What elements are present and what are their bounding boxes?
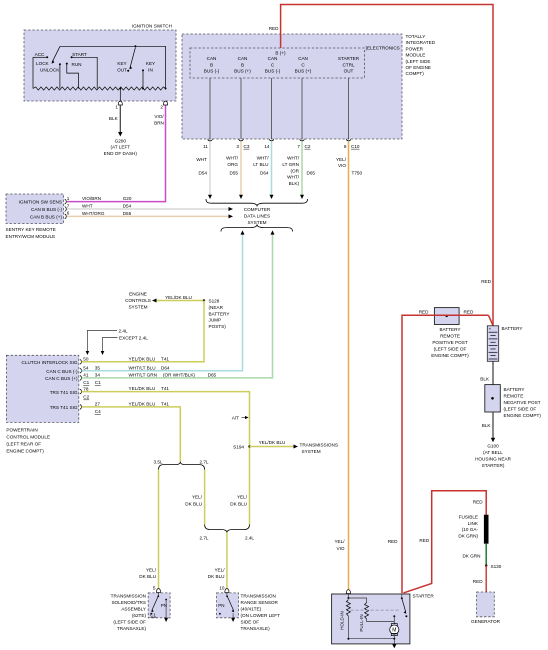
starter motor and solenoid [332,590,435,644]
wire WHT D54 sentry to data lines [67,204,233,211]
svg-text:POWER: POWER [406,46,424,51]
svg-text:CAN B BUS (-): CAN B BUS (-) [31,207,62,212]
svg-text:SYSTEM: SYSTEM [302,449,321,454]
wire YEL/DK BLU 3.5L branch to solenoid [139,470,158,590]
svg-text:TRANSMISSION: TRANSMISSION [111,593,146,598]
svg-text:(LEFT SIDE OF: (LEFT SIDE OF [113,619,146,624]
TIPM pin 8 C10 [344,144,360,149]
svg-text:TRS T41 SIG: TRS T41 SIG [50,390,78,395]
svg-text:LT GRN: LT GRN [282,162,299,167]
svg-text:BUS (-): BUS (-) [204,69,220,74]
svg-text:VIO: VIO [338,163,346,168]
TIPM pin 11 [203,144,208,149]
svg-text:50: 50 [83,357,89,362]
TIPM pin 14 [264,144,270,149]
variant tag EXCEPT 2.4L [101,336,149,356]
svg-text:B: B [241,62,244,67]
sentry key remote entry / WCM module [6,194,67,239]
svg-text:S128: S128 [209,299,220,304]
svg-text:BUS (-): BUS (-) [265,69,281,74]
svg-text:REMOTE: REMOTE [440,333,460,338]
svg-text:RED: RED [464,310,474,315]
battery [487,326,522,362]
svg-text:TOTALLY: TOTALLY [406,34,426,39]
svg-text:OUT: OUT [344,69,354,74]
svg-text:B (+): B (+) [275,50,286,55]
svg-text:BLK: BLK [480,376,490,381]
wire WHT/LT BLU D64 CAN C(-) to data lines [82,230,245,370]
svg-text:RUN: RUN [71,62,81,67]
svg-text:T41: T41 [161,356,169,361]
variant tag A/T [232,415,249,420]
svg-text:IN: IN [148,68,153,73]
sentry module pin 7 [67,203,70,208]
ground G100 [475,438,511,468]
svg-text:RED: RED [481,279,491,284]
wire RED B(+) feed from battery to TIPM [269,5,493,326]
svg-text:REMOTE: REMOTE [504,393,524,398]
TIPM electronics block [190,46,400,79]
svg-text:2: 2 [160,104,163,109]
transmissions system node [300,442,338,454]
svg-text:G20: G20 [123,196,132,201]
ground at starter [392,644,396,648]
svg-text:SYSTEM: SYSTEM [128,305,147,310]
wire BLK battery negative to negative post [480,361,493,384]
wire RED positive post to starter battery terminal [388,315,435,593]
svg-text:WHT/: WHT/ [226,156,239,161]
ignition switch S1 [24,24,176,102]
svg-text:C1: C1 [150,612,156,617]
svg-text:(OR WHT/BLK): (OR WHT/BLK) [163,373,195,378]
svg-text:CLUTCH INTERLOCK SIG: CLUTCH INTERLOCK SIG [22,360,78,365]
svg-text:(OR: (OR [290,168,299,173]
svg-text:NEGATIVE POST: NEGATIVE POST [504,400,541,405]
svg-text:D65: D65 [208,373,217,378]
svg-text:VIO/BRN: VIO/BRN [82,196,101,201]
svg-text:S130: S130 [491,564,502,569]
wire YEL/DK BLU merge to range sensor [208,532,227,589]
svg-text:YEL/: YEL/ [192,495,203,500]
svg-text:(10 GA-: (10 GA- [462,527,479,532]
svg-text:1: 1 [115,104,118,109]
svg-text:ENGINE COMPT): ENGINE COMPT) [504,413,542,418]
ignition switch pin 2 [160,101,167,109]
wire WHT D54 from TIPM pin 11 [196,142,212,199]
svg-text:ENGINE COMPT): ENGINE COMPT) [431,353,469,358]
svg-text:HOLD-IN: HOLD-IN [339,611,344,630]
svg-text:2.4L: 2.4L [119,328,128,333]
totally integrated power module (TIPM) [182,34,436,139]
svg-text:CONTROLS: CONTROLS [125,298,151,303]
svg-text:CAN C BUS (-): CAN C BUS (-) [46,369,78,374]
engine controls system node [125,292,156,310]
svg-text:ENGINE COMPT): ENGINE COMPT) [6,449,44,454]
svg-text:BUS (+): BUS (+) [295,69,312,74]
wire WHT/LT GRN D65 CAN C(+) to data lines [82,230,275,378]
generator [471,592,501,624]
svg-text:D55: D55 [123,211,132,216]
svg-text:KEY: KEY [117,61,126,66]
svg-text:YEL/DK BLU: YEL/DK BLU [165,295,192,300]
svg-text:RED: RED [419,538,429,543]
svg-text:LINK: LINK [468,521,479,526]
svg-text:STARTER: STARTER [413,593,435,598]
svg-text:7: 7 [297,144,300,149]
svg-text:VIO/: VIO/ [154,114,164,119]
svg-text:ENGINE: ENGINE [129,292,147,297]
wire YEL/DK BLU S194 to transmissions system [250,440,299,449]
svg-text:OUT: OUT [117,68,127,73]
svg-text:78: 78 [83,386,89,391]
wire BLK negative post to G100 [482,412,493,438]
svg-text:YEL/DK BLU: YEL/DK BLU [259,440,286,445]
svg-text:DK GRN): DK GRN) [458,534,478,539]
svg-text:TRANSAXLE): TRANSAXLE) [117,626,147,631]
wire YEL/DK BLU 2.4L branch [230,495,247,507]
svg-text:WHT/LT BLU: WHT/LT BLU [129,365,156,370]
svg-text:MODULE: MODULE [406,53,426,58]
svg-text:START: START [72,52,87,57]
transmission range sensor [217,586,281,631]
splice S194 [233,445,251,450]
svg-text:D64: D64 [161,365,170,370]
svg-text:RED: RED [419,310,429,315]
svg-text:T750: T750 [352,171,363,176]
svg-text:BATTERY: BATTERY [440,327,461,332]
transmission solenoid/TRS assembly [111,586,170,631]
svg-text:BATTERY: BATTERY [504,387,525,392]
battery remote negative post [485,385,542,418]
wire BLK from ignition switch pin 1 to G200 [109,106,120,133]
splice S128 [203,299,230,330]
svg-text:3: 3 [236,144,239,149]
svg-text:(LEFT SIDE OF: (LEFT SIDE OF [434,346,467,351]
svg-text:VIO: VIO [337,546,345,551]
svg-text:C1: C1 [95,380,101,385]
TIPM pin 7 C2 [297,144,310,149]
ground G200 [104,132,138,156]
svg-text:B: B [210,62,213,67]
wire WHT/ORG D55 sentry to data lines [67,211,233,218]
PCM pin 27 [95,402,101,407]
svg-text:TRS T41 SIG: TRS T41 SIG [50,405,78,410]
svg-text:DK BLU: DK BLU [139,574,156,579]
svg-text:(40/41TE): (40/41TE) [241,606,262,611]
svg-text:SOLENOID/TRS: SOLENOID/TRS [111,600,146,605]
svg-text:BLK): BLK) [289,181,300,186]
svg-text:G100: G100 [487,444,499,449]
svg-text:OF ENGINE: OF ENGINE [406,65,432,70]
svg-text:POSTS): POSTS) [209,324,227,329]
svg-text:BATTERY: BATTERY [502,326,523,331]
svg-text:YEL/DK BLU: YEL/DK BLU [129,402,156,407]
svg-text:(ON LOWER LEFT: (ON LOWER LEFT [241,613,281,618]
svg-text:G200: G200 [115,138,127,143]
TIPM pin 3 C3 [236,144,249,149]
svg-text:GENERATOR: GENERATOR [471,619,501,624]
svg-text:(LEFT SIDE OF: (LEFT SIDE OF [504,406,537,411]
svg-text:RED: RED [269,26,279,31]
svg-text:5: 5 [153,586,156,591]
svg-text:1: 1 [67,196,70,201]
svg-text:A/T: A/T [232,415,239,420]
svg-text:ORG: ORG [227,162,238,167]
svg-text:34: 34 [95,373,101,378]
svg-text:RED: RED [473,500,483,505]
svg-text:TRANSMISSIONS: TRANSMISSIONS [300,442,338,447]
svg-text:BUS (+): BUS (+) [234,69,251,74]
svg-text:BLK: BLK [109,116,119,121]
PCM pins 41 / 34 [83,373,100,378]
svg-text:INTEGRATED: INTEGRATED [406,40,436,45]
svg-text:COMPT): COMPT) [406,71,425,76]
svg-text:8: 8 [344,144,347,149]
svg-text:D55: D55 [229,171,238,176]
svg-text:T41: T41 [161,386,169,391]
svg-text:CAN: CAN [298,56,308,61]
svg-text:C2: C2 [305,144,311,149]
svg-text:C10: C10 [351,144,360,149]
svg-text:SIDE OF: SIDE OF [241,619,260,624]
merge brace 2.7L / 2.4L [199,525,254,541]
svg-text:LOCK: LOCK [36,61,50,66]
svg-text:RED: RED [388,539,398,544]
svg-text:TRANSAXLE): TRANSAXLE) [241,626,271,631]
ground at transmission solenoid [164,618,168,622]
svg-text:TRANSMISSION: TRANSMISSION [241,593,276,598]
PCM pin 50 [83,357,89,362]
svg-text:M: M [392,628,396,634]
svg-text:41: 41 [83,373,89,378]
wire YEL/DK BLU T41 clutch interlock (pin 50) to S128 [82,301,205,362]
wire RED battery to positive post to starter [419,310,493,326]
fusible link (10 GA- DK GRN) [458,514,488,543]
PCM connector C2 [83,395,89,400]
svg-text:FUSIBLE: FUSIBLE [459,514,478,519]
svg-text:ENTRY/WCM MODULE: ENTRY/WCM MODULE [6,234,56,239]
svg-text:C2: C2 [83,395,89,400]
sentry module pin 1 [67,196,70,201]
svg-text:S194: S194 [233,445,244,450]
wire YEL/VIO T750 TIPM starter ctrl to starter solenoid [334,142,362,590]
svg-text:3.5L: 3.5L [153,460,162,465]
svg-text:11: 11 [203,144,208,149]
svg-text:RANGE SENSOR: RANGE SENSOR [241,600,279,605]
svg-text:CAN: CAN [268,56,278,61]
svg-text:IGNITION SWITCH: IGNITION SWITCH [132,24,172,29]
svg-text:DK GRN: DK GRN [462,554,480,559]
svg-text:10: 10 [219,586,225,591]
wire RED S130 to generator [473,566,486,592]
svg-text:CAN: CAN [238,56,248,61]
ground at transmission range sensor [231,618,235,622]
computer data lines system node [206,199,308,232]
svg-text:YEL/: YEL/ [146,567,157,572]
svg-text:YEL/: YEL/ [336,157,347,162]
svg-text:YEL/: YEL/ [214,567,225,572]
svg-text:WHT/: WHT/ [287,175,300,180]
svg-text:STARTER: STARTER [338,56,360,61]
svg-text:POSITIVE POST: POSITIVE POST [432,340,467,345]
svg-text:(62TE): (62TE) [132,613,147,618]
svg-text:D54: D54 [123,204,132,209]
svg-text:BATTERY: BATTERY [209,311,230,316]
wire WHT/ORG D55 from TIPM pin 3 [226,142,243,199]
svg-text:(AT BELL: (AT BELL [483,450,503,455]
svg-text:(AT LEFT: (AT LEFT [110,145,130,150]
svg-text:WHT/: WHT/ [257,156,270,161]
svg-text:(LEFT SIDE: (LEFT SIDE [406,59,431,64]
svg-text:54: 54 [83,365,89,370]
svg-text:ASSEMBLY: ASSEMBLY [121,606,146,611]
sentry module pin 6 [67,211,70,216]
svg-text:DK BLU: DK BLU [208,574,225,579]
svg-text:YEL/DK BLU: YEL/DK BLU [129,356,156,361]
svg-text:CTRL: CTRL [342,62,355,67]
svg-text:7: 7 [67,203,70,208]
svg-text:C4: C4 [95,409,101,414]
svg-text:KEY: KEY [146,61,155,66]
PCM connector C4 [95,409,101,414]
svg-text:ACC: ACC [35,52,45,57]
splice S130 [485,564,502,569]
svg-text:PN: PN [218,603,224,608]
battery remote positive post [431,308,469,358]
wire YEL/DK BLU splice S128 to engine controls [157,295,205,301]
svg-text:D54: D54 [198,171,207,176]
svg-text:WHT/: WHT/ [287,156,300,161]
svg-text:D64: D64 [260,171,269,176]
svg-text:YEL/: YEL/ [237,495,248,500]
svg-text:(LEFT REAR OF: (LEFT REAR OF [6,442,41,447]
svg-text:DK BLU: DK BLU [230,501,247,506]
svg-text:6: 6 [67,211,70,216]
svg-text:IGNITION SW SENS: IGNITION SW SENS [19,200,62,205]
wire VIO/BRN G20 ignition switch pin 2 to sentry module [67,106,166,202]
svg-text:HOUSING NEAR: HOUSING NEAR [475,457,511,462]
svg-text:EXCEPT 2.4L: EXCEPT 2.4L [119,336,148,341]
svg-text:C1: C1 [83,380,89,385]
svg-text:SENTRY KEY REMOTE: SENTRY KEY REMOTE [6,227,56,232]
variant tag 2.4L [86,328,128,355]
svg-text:35: 35 [95,365,101,370]
wire RED starter to fusible link [404,491,487,593]
svg-text:WHT: WHT [196,157,207,162]
svg-text:WHT: WHT [82,204,93,209]
svg-text:}ELECTRONICS: }ELECTRONICS [366,46,400,51]
svg-text:PULL-IN: PULL-IN [359,614,364,631]
svg-text:2.7L: 2.7L [199,460,208,465]
svg-text:C3: C3 [244,144,250,149]
svg-text:COMPUTER: COMPUTER [244,207,271,212]
svg-text:+: + [489,327,492,332]
svg-text:T41: T41 [161,402,169,407]
ignition switch pin 1 [115,101,122,109]
wire YEL/DK BLU T41 TRS pin 78 to S194 [82,386,250,524]
svg-text:END OF DASH): END OF DASH) [104,151,138,156]
split brace 3.5L / 2.7L [153,460,208,470]
wire WHT/LT BLU D64 from TIPM pin 14 [253,142,273,199]
svg-text:YEL/DK BLU: YEL/DK BLU [129,386,156,391]
svg-text:LT BLU: LT BLU [253,162,268,167]
svg-text:JUMP: JUMP [209,318,222,323]
svg-text:2.7L: 2.7L [199,535,208,540]
svg-text:DK BLU: DK BLU [185,501,202,506]
wire DK GRN fusible link to S130 [462,544,486,566]
svg-text:DATA LINES: DATA LINES [244,213,270,218]
svg-text:WHT/LT GRN: WHT/LT GRN [129,373,157,378]
powertrain control module (PCM) [6,355,81,453]
svg-text:YEL/: YEL/ [334,539,345,544]
TIPM internal leads to pins [208,78,351,141]
svg-text:CAN C BUS (+): CAN C BUS (+) [45,376,78,381]
wire YEL/DK BLU 2.7L branch [185,470,204,525]
svg-text:RED: RED [473,579,483,584]
svg-text:(NEAR: (NEAR [209,305,224,310]
svg-text:CAN B BUS (+): CAN B BUS (+) [30,214,63,219]
PCM pin 78 [83,386,89,391]
PCM connectors C1 C1 [83,380,101,385]
svg-text:CONTROL MODULE: CONTROL MODULE [6,435,50,440]
svg-text:UNLOCK: UNLOCK [40,67,60,72]
svg-text:27: 27 [95,402,101,407]
svg-text:POWERTRAIN: POWERTRAIN [6,428,37,433]
svg-text:STARTER): STARTER) [482,463,505,468]
svg-text:14: 14 [264,144,270,149]
svg-text:BLK: BLK [482,423,492,428]
svg-text:CAN: CAN [207,56,217,61]
PCM pins 54 / 35 [83,365,100,370]
wire YEL/DK BLU T41 TRS pin 27 to engine split [82,402,181,462]
wire WHT/LT GRN D65 from TIPM pin 7 [282,142,315,199]
svg-text:WHT/ORG: WHT/ORG [82,211,105,216]
svg-text:BRN: BRN [154,120,164,125]
svg-text:D65: D65 [307,171,316,176]
svg-text:2.4L: 2.4L [245,535,254,540]
